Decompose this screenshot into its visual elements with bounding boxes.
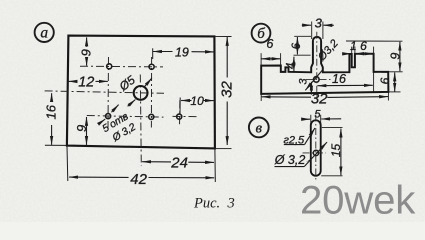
dimension 16 left <box>45 93 66 145</box>
hole d3,2 view b <box>314 77 320 83</box>
dimension 24 <box>142 161 214 164</box>
centerline vertical middle hole column <box>150 57 152 128</box>
svg-text:16: 16 <box>43 104 58 119</box>
svg-text:5: 5 <box>314 109 321 121</box>
svg-text:9: 9 <box>389 53 403 60</box>
svg-text:б: б <box>257 26 265 42</box>
svg-text:3: 3 <box>227 196 235 212</box>
dimension 9 bottom <box>86 117 88 145</box>
svg-text:32: 32 <box>218 81 235 98</box>
centerline vertical left hole column <box>107 57 110 128</box>
dimension 42 <box>67 147 215 183</box>
svg-text:12: 12 <box>78 75 94 91</box>
centerline vertical view v <box>315 115 317 181</box>
dimension 3 small view b <box>310 82 312 95</box>
centerline horizontal top hole row <box>80 65 163 68</box>
big hole d5 <box>134 86 148 100</box>
svg-text:6: 6 <box>291 42 303 49</box>
dimension 32 view b <box>261 93 388 102</box>
svg-text:3: 3 <box>298 78 310 85</box>
svg-text:16: 16 <box>332 72 346 86</box>
centerline horizontal through big hole <box>45 91 164 93</box>
svg-text:6: 6 <box>266 37 273 51</box>
dimension 4 vertical view b <box>293 57 295 72</box>
svg-text:24: 24 <box>170 155 188 172</box>
svg-text:42: 42 <box>130 171 147 188</box>
dimension 6 left block view b <box>262 58 281 60</box>
leader d3,2 view b <box>305 70 323 91</box>
centerline vertical slot view b <box>316 32 318 98</box>
dimension 5 view v <box>303 115 341 127</box>
plate outline view a <box>67 36 215 149</box>
profile outline view b <box>261 37 388 94</box>
svg-text:19: 19 <box>175 45 189 59</box>
dimension 12 <box>69 80 108 82</box>
hole bottom-left <box>106 114 111 119</box>
view label b (circled) <box>252 24 271 43</box>
dimension 3 top view b <box>302 22 334 40</box>
dimension 19 <box>153 48 214 59</box>
svg-text:3: 3 <box>315 15 323 30</box>
view label a (circled) <box>35 23 54 42</box>
dimension 9 right view b <box>346 41 403 71</box>
svg-text:в: в <box>256 120 263 136</box>
hole top-left <box>107 64 112 69</box>
hole bottom-middle <box>149 114 154 119</box>
dimension 10 <box>180 98 214 114</box>
dimension 32 right view a <box>216 37 232 149</box>
centerline horizontal right hole <box>173 115 200 117</box>
svg-text:Рис.: Рис. <box>193 196 220 212</box>
dimension 16 view b <box>317 84 372 86</box>
centerline horizontal view v <box>303 152 327 154</box>
svg-text:20wek: 20wek <box>300 178 416 222</box>
svg-text:15: 15 <box>329 144 343 158</box>
hole top-right <box>149 64 154 69</box>
leader arrowhead at hole view v <box>306 158 313 163</box>
svg-text:6: 6 <box>378 77 392 84</box>
svg-text:9: 9 <box>78 49 93 56</box>
dimension 15 view v <box>321 128 342 176</box>
centerline horizontal hole view b <box>306 78 332 80</box>
svg-text:Ø 3,2: Ø 3,2 <box>274 153 306 167</box>
hole d3,2 view v <box>313 150 318 155</box>
dimension 6 middle vertical view b <box>294 36 312 55</box>
dimension 1 and 6 top right view b <box>346 47 374 92</box>
view label v (circled) <box>249 118 269 138</box>
stadium outline view v <box>311 120 321 175</box>
hole bottom-right <box>177 114 182 119</box>
svg-text:32: 32 <box>311 90 328 107</box>
svg-text:9: 9 <box>74 125 89 132</box>
centerline vertical right hole <box>179 100 181 126</box>
centerline horizontal bottom hole row <box>87 116 164 118</box>
centerline vertical big hole extended to 24-dim <box>140 75 141 167</box>
svg-text:а: а <box>40 24 48 41</box>
svg-text:4: 4 <box>286 63 298 69</box>
svg-text:10: 10 <box>190 94 204 108</box>
dimension 6 right view b <box>389 72 403 92</box>
dimension 9 top <box>86 37 88 65</box>
